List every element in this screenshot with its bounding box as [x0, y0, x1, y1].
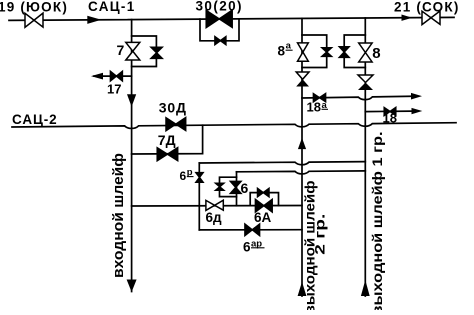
gate valve 17 (closed)	[110, 71, 122, 81]
flow arrow right (before САЦ-1 junction)	[87, 16, 101, 24]
svg-text:6А: 6А	[254, 210, 272, 225]
control valve below 8а: open top cone	[296, 72, 309, 79]
gate valve 8а (open, vertical)	[298, 43, 309, 61]
wire 6р vertical drop	[198, 163, 200, 230]
gate valve 6 bypass (closed, small vertical)	[216, 183, 224, 190]
flow arrow up (выходной шлейф 1 гр. end)	[361, 280, 370, 296]
wire line1 from 6р corner to шлейф-1 riser (jump at x=302)	[199, 162, 365, 165]
gate valve 8 bypass (closed, vertical)	[339, 47, 349, 58]
svg-text:входной шлейф: входной шлейф	[111, 153, 127, 278]
svg-text:8: 8	[278, 44, 286, 59]
control valve below 8: filled bottom cone	[358, 83, 373, 91]
flow arrow right (before valve 21)	[402, 15, 413, 21]
flow arrow right (line 18а)	[411, 93, 422, 100]
control valve below 8: open top cone	[358, 75, 373, 83]
svg-text:выходной шлейф 1 гр.: выходной шлейф 1 гр.	[370, 132, 385, 311]
gate valve 19 (open, on main line)	[25, 13, 43, 27]
svg-text:САЦ-1: САЦ-1	[88, 0, 136, 14]
svg-text:8: 8	[372, 45, 380, 62]
wire line to valve 17	[94, 75, 132, 77]
svg-text:21 (СОК): 21 (СОК)	[394, 0, 460, 15]
wire 30(20) bypass	[200, 19, 239, 41]
wire bypass around valve 7	[132, 36, 157, 67]
wire САЦ-2 line with jumps at x=131.6, 302, 365.3	[12, 123, 456, 129]
gate valve 30(20) (closed, on main line)	[206, 10, 232, 27]
flow arrow left (line 17)	[91, 73, 103, 80]
gate valve 8а bypass (closed, vertical)	[322, 48, 332, 57]
svg-text:19 (ЮОК): 19 (ЮОК)	[0, 0, 68, 14]
wire bypass around valve 6А	[250, 193, 278, 206]
svg-text:7Д: 7Д	[158, 132, 176, 148]
svg-text:6: 6	[180, 169, 187, 183]
wire main top line 19-21	[9, 17, 454, 20]
wire 6ар line	[199, 229, 302, 231]
gate valve 6А bypass (closed, small)	[258, 188, 270, 196]
svg-text:17: 17	[107, 82, 121, 97]
svg-text:6д: 6д	[206, 210, 223, 225]
gate valve 6А (closed)	[255, 199, 272, 212]
svg-text:18: 18	[383, 111, 397, 126]
gate valve 6р (closed, vertical small)	[196, 173, 203, 183]
gate valve 7 bypass (closed, vertical)	[151, 47, 162, 58]
wire 18а line with jump at x=365.3	[302, 96, 412, 99]
gate valve 7Д (closed)	[157, 148, 178, 161]
gate valve 8 (open, vertical)	[359, 43, 372, 62]
flow arrow up (выходной шлейф 2 гр. end)	[298, 282, 307, 296]
wire 7Д bypass: from riser right then up to САЦ-2	[132, 125, 203, 154]
wire line2 from valve-6 top to шлейф-1 riser (jump at x=302)	[237, 171, 366, 174]
gate valve 30(20) bypass (closed)	[215, 37, 226, 45]
wire small bypass around valve 6	[220, 177, 237, 196]
gate valve 21 (open, on main line)	[422, 11, 440, 25]
gate valve 7 (open, vertical)	[126, 42, 140, 60]
gate valve 6 (closed, vertical)	[230, 181, 241, 193]
svg-text:7: 7	[117, 42, 125, 58]
svg-text:30(20): 30(20)	[196, 0, 243, 14]
flow arrow down (входной шлейф outlet)	[127, 280, 137, 293]
gate valve 30Д (closed, on САЦ-2)	[166, 118, 186, 131]
wire branch-7 vertical (входной шлейф riser)	[131, 20, 133, 292]
svg-text:6: 6	[243, 240, 251, 255]
svg-text:18: 18	[307, 99, 321, 114]
gate valve 18а (closed)	[313, 94, 325, 102]
wire bypass around valve 8а	[302, 35, 327, 68]
wire выходной шлейф 1 гр. riser	[364, 18, 366, 296]
gate valve 18 (closed)	[384, 107, 396, 115]
control valve below 8а: filled bottom cone	[296, 79, 309, 86]
gate valve 6ар (closed)	[245, 224, 260, 236]
flow arrow right (line 18)	[412, 108, 423, 114]
wire valve-6 vertical	[236, 172, 238, 206]
svg-text:6: 6	[241, 180, 249, 196]
gate valve 6д (open)	[206, 200, 223, 210]
wire 18 line	[365, 110, 411, 113]
svg-text:30Д: 30Д	[159, 99, 187, 115]
svg-text:САЦ-2: САЦ-2	[12, 112, 58, 127]
wire выходной шлейф 2 гр. riser	[301, 18, 303, 296]
wire bypass around valve 8	[344, 35, 365, 68]
wire 6д/6А line from riser to шлейф-2 riser	[132, 205, 302, 208]
svg-text:2 гр.: 2 гр.	[312, 214, 327, 255]
flow arrow up (шлейф-2 riser below САЦ-2)	[298, 138, 306, 149]
flow arrow down (on входной riser)	[127, 94, 136, 107]
